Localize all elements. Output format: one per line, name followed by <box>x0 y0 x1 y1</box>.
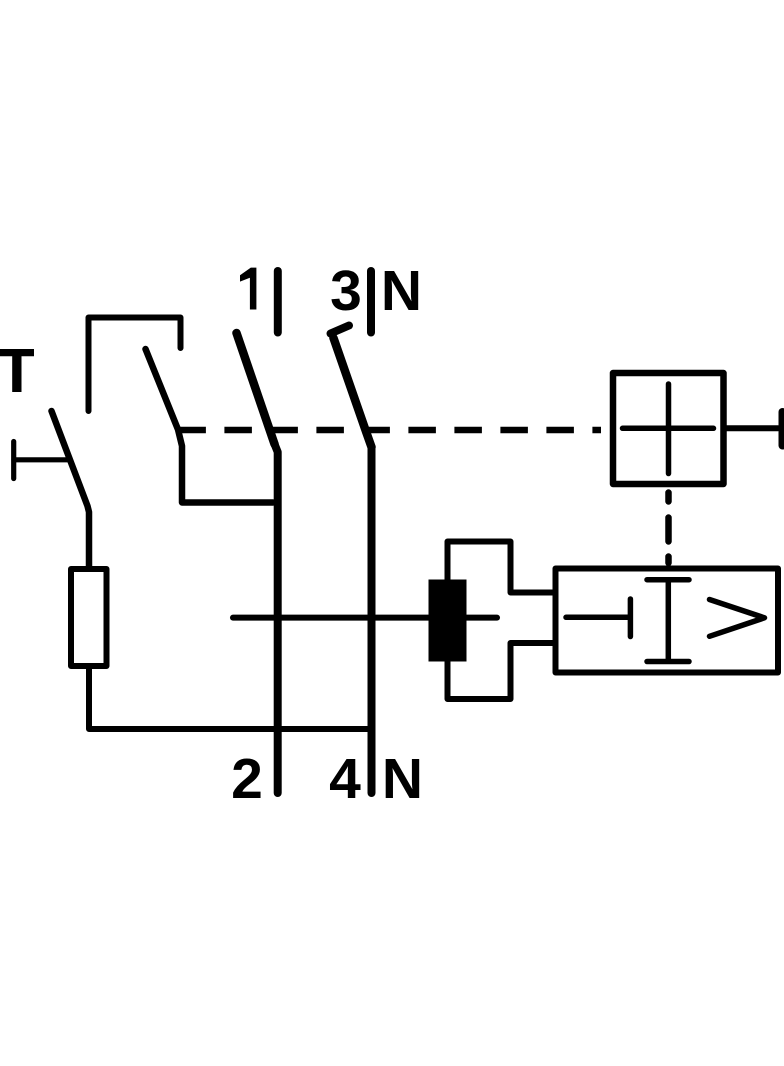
label 1 <box>240 268 256 310</box>
N pole blade tip <box>331 326 350 334</box>
terminal 1 bar <box>274 271 282 333</box>
svg-text:3: 3 <box>330 259 362 323</box>
resistor (test resistor) <box>71 569 107 666</box>
CT primary line <box>233 615 497 621</box>
svg-text:4: 4 <box>329 747 361 811</box>
actuator box (operating mechanism) <box>613 373 724 484</box>
svg-text:2: 2 <box>231 747 263 811</box>
relay greater-than symbol <box>710 600 765 637</box>
N pole contact blade <box>334 338 372 447</box>
wire actuator to output terminal <box>726 425 778 431</box>
output terminal bar <box>779 412 784 446</box>
CT secondary winding top <box>448 542 556 593</box>
svg-text:N: N <box>381 259 422 323</box>
mechanism bracket wire <box>89 318 181 412</box>
relay I symbol <box>647 580 689 662</box>
wire test feed <box>14 457 68 462</box>
relay input bar symbol <box>566 599 630 637</box>
actuator cross symbol <box>623 384 714 474</box>
svg-text:N: N <box>382 747 423 811</box>
relay box (residual current relay) <box>556 569 779 673</box>
terminal T bar <box>11 442 16 479</box>
test switch blade <box>52 411 90 566</box>
pole 1 conductor <box>275 444 278 793</box>
N pole conductor <box>368 447 376 793</box>
CT secondary winding bottom <box>448 643 556 699</box>
pole 1 contact blade <box>237 333 275 444</box>
CT core (current transformer) <box>429 580 467 662</box>
mechanism link blade <box>146 349 274 503</box>
dashed trip linkage <box>178 427 601 434</box>
terminal 3 bar <box>367 271 375 333</box>
wire resistor to N conductor <box>89 666 372 729</box>
dashed link actuator to relay <box>665 493 672 564</box>
label T (test button) <box>0 349 34 392</box>
